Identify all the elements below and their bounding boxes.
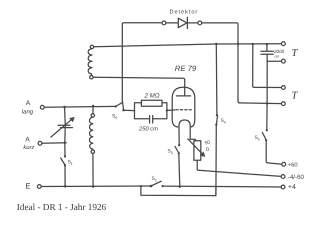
svg-text:T: T <box>292 90 299 101</box>
wire rheostat to -4 line <box>197 160 281 176</box>
svg-text:A: A <box>26 100 31 107</box>
wire A kurz line <box>42 142 66 145</box>
node junction phones line x252.8 <box>252 43 254 45</box>
resistor R1 right lead <box>153 103 167 119</box>
diode detector <box>166 17 198 28</box>
node junction earth bypass x141 <box>140 185 142 187</box>
svg-text:50: 50 <box>204 139 211 145</box>
wire S1 to earth line <box>64 165 66 186</box>
tube V1 filament arch <box>179 120 190 139</box>
svg-text:2 MΩ: 2 MΩ <box>144 92 160 99</box>
resistor R1 2 Mohm box <box>141 100 162 106</box>
switch S1 upper contact <box>64 155 66 157</box>
switch S1 lever <box>61 158 65 165</box>
switch S2 pivot contact <box>150 185 153 188</box>
wire grid lead to tube <box>167 109 175 111</box>
terminal A lang <box>40 105 44 109</box>
coil L1 secondary top circle <box>90 45 93 48</box>
node grid leak left <box>123 109 125 111</box>
tube V1 grid dashes <box>176 109 192 111</box>
tube V1 envelope <box>172 87 195 127</box>
switch S6 upper contact <box>266 129 268 131</box>
switch S3 lever <box>175 146 179 153</box>
wire L2 to earth line <box>92 154 94 187</box>
svg-text:4: 4 <box>224 121 226 125</box>
wire T1 bottom line <box>267 60 281 62</box>
wire detector branch left vertical <box>122 23 162 102</box>
svg-text:Ω: Ω <box>205 146 210 152</box>
terminal detector right <box>198 21 202 25</box>
wire bypass loop <box>141 186 216 195</box>
wire HT branch upper <box>266 61 268 129</box>
terminal +4 <box>281 185 285 189</box>
wire detector to phones line lower corner <box>238 44 240 103</box>
variable capacitor C1 plates <box>58 125 73 127</box>
rheostat R2 box <box>194 141 201 161</box>
variable capacitor C1 lead wire <box>64 107 67 143</box>
coil L1 secondary winding <box>88 49 92 76</box>
terminal T1 bottom <box>282 59 286 63</box>
svg-text:T: T <box>292 48 299 59</box>
wire plate switch vertical lower <box>215 125 217 196</box>
node junction phones line x216 <box>215 43 217 45</box>
switch S4 lower contact <box>215 124 217 126</box>
node junction earth x93 <box>92 185 94 187</box>
coil L2 primary top circle <box>91 114 94 117</box>
svg-text:Ideal - DR 1 - Jahr 1926: Ideal - DR 1 - Jahr 1926 <box>17 202 107 212</box>
tube V1 plate bar <box>176 95 190 97</box>
node grid right <box>166 109 168 111</box>
svg-text:RE 79: RE 79 <box>175 64 197 73</box>
wire phones top line <box>94 44 282 47</box>
node junction phones line x238 <box>237 43 239 45</box>
resistor R1 grid leak loop left <box>135 103 150 119</box>
wire plate switch vertical <box>215 44 218 115</box>
switch S6 lever <box>262 132 266 140</box>
svg-text:5: 5 <box>115 116 117 120</box>
switch S3 upper contact <box>178 144 180 146</box>
wire T2 bottom line <box>239 102 281 105</box>
node junction A kurz <box>64 142 66 144</box>
wire vertical to grid node <box>122 102 125 110</box>
terminal E <box>37 185 41 189</box>
coil L2 primary winding <box>90 117 93 150</box>
svg-text:+60: +60 <box>288 161 298 168</box>
svg-text:+4: +4 <box>288 184 296 191</box>
svg-text:Detektor: Detektor <box>170 8 199 15</box>
switch S2 lever <box>151 181 161 186</box>
capacitor C3 grid plates <box>150 116 153 123</box>
node junction phones line x266.9 <box>266 43 268 45</box>
wire grid leak node <box>124 109 135 111</box>
capacitor C2 2000cm stub bottom <box>266 54 268 61</box>
node junction A lang x93 <box>92 105 94 107</box>
wire HT branch lower to +60 <box>266 141 282 165</box>
node junction A lang x65 <box>63 106 65 108</box>
svg-text:A: A <box>25 137 30 144</box>
switch S4 upper contact <box>216 114 218 116</box>
svg-text:kurz: kurz <box>23 144 34 151</box>
wire earth line right <box>163 185 282 188</box>
svg-text:lang: lang <box>22 109 34 116</box>
terminal detector left <box>162 21 166 25</box>
capacitor C2 2000cm plates <box>261 51 273 54</box>
wire filament right to rheostat <box>190 139 196 141</box>
switch S1 lower contact <box>64 164 66 166</box>
svg-text:E: E <box>25 181 30 190</box>
wire plate line to tube <box>93 77 185 96</box>
terminal +60 <box>282 162 286 166</box>
node junction earth x180 <box>179 186 181 188</box>
svg-text:3: 3 <box>171 151 173 155</box>
coil L1 secondary bottom circle <box>90 76 93 79</box>
svg-text:5: 5 <box>258 138 260 142</box>
switch S5 contact dot <box>115 105 117 107</box>
rheostat R2 arrow <box>188 139 203 155</box>
coil L2 primary bottom circle <box>91 150 94 153</box>
coil L2 primary top lead <box>92 106 94 114</box>
capacitor C2 2000cm stub top <box>266 44 268 51</box>
switch S4 lever <box>216 116 217 125</box>
svg-text:-4/-60: -4/-60 <box>288 174 305 181</box>
switch S5 lever <box>116 102 123 106</box>
wire earth line left <box>41 185 151 188</box>
terminal A kurz <box>38 141 42 145</box>
svg-text:2: 2 <box>155 179 157 183</box>
wire filament left to earth <box>179 154 180 187</box>
switch S6 lower contact <box>265 139 267 141</box>
node junction earth x65 <box>64 185 66 187</box>
svg-text:1: 1 <box>71 162 73 166</box>
node junction grid branch <box>122 109 124 111</box>
wire below A kurz <box>64 143 66 156</box>
variable capacitor C1 arrow <box>51 119 72 137</box>
terminal -4/-60 <box>281 175 285 179</box>
switch S3 lower contact <box>178 152 180 154</box>
svg-text:2000: 2000 <box>273 49 285 54</box>
wire filament left leg <box>178 130 180 145</box>
node junction T2 bottom x267 <box>266 102 268 104</box>
svg-text:250 cm: 250 cm <box>138 126 158 133</box>
wire detector branch right down <box>202 23 238 44</box>
wire branch to T2 top <box>253 44 282 87</box>
wire A lang line <box>44 105 116 108</box>
terminal T2 top <box>282 86 286 90</box>
svg-text:cm: cm <box>275 54 280 58</box>
terminal T2 bottom <box>281 102 285 106</box>
terminal T1 top <box>282 42 286 46</box>
switch S2 right contact <box>162 185 164 187</box>
